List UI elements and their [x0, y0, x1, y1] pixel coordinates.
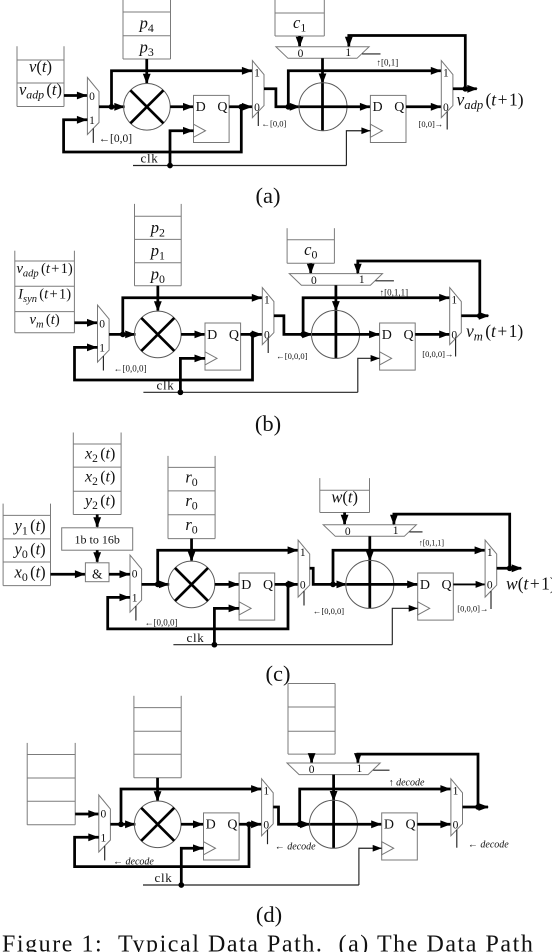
svg-text:←[0,0]: ←[0,0] — [99, 133, 133, 145]
svg-text:x0(t): x0(t) — [14, 562, 46, 584]
wire mux M2 output to adder (c) — [310, 568, 347, 588]
wire multiplier to FF1 (c) — [215, 581, 239, 589]
svg-text:1: 1 — [443, 67, 449, 79]
wire mux M1 output (c) — [142, 581, 170, 589]
wire coeff to multiplier (c) — [188, 539, 196, 562]
svg-text:Q: Q — [442, 578, 452, 593]
mux M2b — [262, 288, 274, 353]
svg-text:1: 1 — [89, 115, 95, 127]
junction J2 (a) — [285, 104, 291, 110]
svg-text:Q: Q — [263, 578, 273, 593]
svg-text:(c): (c) — [266, 661, 291, 686]
svg-text:clk: clk — [155, 870, 173, 885]
wire output (d) — [463, 803, 490, 811]
svg-text:Q: Q — [227, 818, 237, 833]
svg-text:clk: clk — [187, 630, 205, 645]
svg-text:[0,0]→: [0,0]→ — [419, 119, 444, 129]
adder (c) — [346, 560, 394, 608]
D flip-flop FF2a — [370, 95, 406, 142]
select label M3a — [419, 119, 444, 129]
svg-text:0: 0 — [300, 579, 306, 591]
select label M1d — [113, 857, 154, 868]
svg-text:&: & — [92, 566, 103, 581]
wire clk to FF2 (a) — [346, 127, 370, 165]
wire input to mux0 (c) — [51, 570, 86, 578]
D flip-flop FF2c — [418, 573, 454, 620]
wire mux M1 output (b) — [109, 331, 136, 339]
svg-text:1: 1 — [453, 786, 459, 798]
wire FF1 Q to mux M2 input0 (a) — [229, 103, 252, 111]
svg-text:x2(t): x2(t) — [84, 446, 115, 466]
junction J2 (c) — [330, 582, 336, 588]
svg-text:1: 1 — [254, 67, 260, 79]
svg-text:←[0,0]: ←[0,0] — [262, 118, 287, 128]
wire FF2 Q to mux M3 input0 (d) — [417, 820, 451, 828]
svg-text:1: 1 — [99, 342, 105, 354]
register stack coeff (b) — [135, 204, 182, 286]
D flip-flop FF1c — [239, 573, 275, 620]
svg-text:0: 0 — [254, 102, 260, 114]
mux M3d (output) — [451, 779, 463, 848]
D flip-flop FF1b — [205, 323, 241, 370]
register stack inputs (c) — [3, 504, 50, 586]
register stack inputs (b) — [15, 251, 75, 333]
caption (c) — [266, 661, 291, 686]
svg-text:0: 0 — [99, 319, 105, 331]
wire multiplier to FF1 (b) — [181, 331, 205, 339]
wire clk line (b) — [143, 391, 357, 393]
caption (b) — [255, 411, 281, 436]
svg-text:w(t): w(t) — [331, 488, 358, 507]
svg-text:0: 0 — [453, 819, 459, 831]
junction clk (b) — [178, 389, 184, 395]
junction output (c) — [507, 565, 513, 571]
mux M2c — [298, 540, 310, 605]
register stack coeff (c) — [168, 456, 215, 539]
svg-text:←[0,0,0]: ←[0,0,0] — [276, 351, 307, 361]
wire clk to FF1 (c) — [214, 604, 239, 644]
wire adder to FF2 (b) — [313, 331, 380, 339]
node clk (b) — [157, 378, 175, 393]
svg-text:clk: clk — [141, 151, 159, 166]
wire feedback FF1 Q to mux M1 input1 (b) — [75, 334, 253, 380]
D flip-flop FF1a — [194, 95, 230, 142]
svg-text:0: 0 — [487, 579, 493, 591]
svg-text:1: 1 — [487, 547, 493, 559]
wire J1 riser to mux M2 input1 (c) — [158, 546, 298, 584]
svg-text:[0,0,0]→: [0,0,0]→ — [457, 603, 488, 613]
wire J2 riser to mux M3 input1 (b) — [303, 294, 450, 335]
svg-text:D: D — [241, 578, 251, 593]
mux M1d — [99, 795, 111, 860]
wire input to mux0 (d) — [75, 810, 99, 818]
svg-text:0: 0 — [443, 102, 449, 114]
register stack const (d) — [288, 684, 335, 755]
junction output (d) — [475, 804, 481, 810]
select label M2a — [262, 118, 287, 128]
junction JQ (a) — [238, 104, 244, 110]
wire FF1 Q to mux M2 input0 (d) — [239, 820, 262, 828]
svg-text:1: 1 — [300, 547, 306, 559]
wire output (b) — [461, 312, 489, 320]
svg-text:0: 0 — [89, 91, 95, 103]
wire FF1 Q to mux M2 input0 (c) — [275, 581, 298, 589]
register stack const (c) — [320, 478, 370, 512]
junction JQ (c) — [285, 582, 291, 588]
junction J2 (b) — [300, 332, 306, 338]
svg-text:(d): (d) — [256, 902, 282, 927]
svg-text:y0(t): y0(t) — [13, 539, 46, 561]
adder (a) — [299, 83, 347, 131]
svg-text:0: 0 — [345, 526, 351, 538]
mux M4a (decode) — [276, 47, 381, 60]
register stack const (b) — [287, 228, 334, 263]
junction clk (d) — [178, 882, 184, 888]
wire feedback FF1 Q to mux M1 input1 (d) — [75, 824, 249, 866]
adder (d) — [309, 800, 357, 848]
svg-text:Q: Q — [394, 100, 404, 115]
register stack coeff (a) — [123, 0, 171, 59]
wire decode mux output to adder (d) — [330, 775, 338, 849]
wire adder to FF2 (d) — [310, 820, 381, 828]
wire input to mux0 (a) — [64, 92, 87, 100]
svg-text:0: 0 — [263, 819, 269, 831]
wire clk to FF2 (c) — [392, 605, 417, 645]
junction clk (a) — [167, 163, 173, 169]
wire output (a) — [453, 85, 478, 93]
svg-text:0: 0 — [311, 275, 317, 287]
register stack const (a) — [275, 0, 324, 36]
svg-text:↑[0,1,1]: ↑[0,1,1] — [380, 288, 409, 298]
wire coeff to multiplier (d) — [154, 778, 162, 802]
svg-text:x2(t): x2(t) — [84, 469, 115, 489]
svg-text:D: D — [373, 100, 383, 115]
wire clk to FF1 (d) — [181, 844, 203, 885]
svg-text:0: 0 — [451, 329, 457, 341]
svg-text:1: 1 — [101, 832, 107, 844]
junction J2 (d) — [297, 821, 303, 827]
svg-text:D: D — [420, 578, 430, 593]
svg-text:0: 0 — [264, 329, 270, 341]
svg-text:←[0,0,0]: ←[0,0,0] — [114, 363, 147, 373]
select label M4b — [380, 288, 409, 298]
svg-text:← decode: ← decode — [275, 841, 316, 852]
wire mux M1 output (a) — [99, 103, 125, 111]
wire output feedback to decode mux (a) — [345, 36, 465, 89]
wire J1 riser to mux M2 input1 (d) — [121, 785, 262, 824]
junction JQ (d) — [246, 821, 252, 827]
wire and gate to mux M1c (c) — [109, 570, 130, 578]
wire FF2 Q to mux M3 input0 (b) — [415, 331, 450, 339]
svg-text:v(t): v(t) — [29, 57, 52, 76]
wire const to decode mux (b) — [307, 263, 315, 274]
mux M4d (decode) — [287, 763, 390, 776]
figure caption — [2, 932, 534, 952]
wire mux M1 output (d) — [110, 820, 135, 828]
junction output (a) — [462, 86, 468, 92]
wire adder to FF2 (c) — [347, 581, 418, 589]
svg-text:↑[0,1,1]: ↑[0,1,1] — [419, 538, 445, 547]
wire adder to FF2 (a) — [300, 103, 370, 111]
node output label (c) — [506, 574, 552, 594]
wire feedback FF1 Q to mux M1 input1 (a) — [64, 107, 242, 152]
mux M3c (output) — [485, 540, 497, 609]
svg-text:D: D — [384, 818, 394, 833]
register stack inputs (d) — [27, 743, 75, 825]
wire clk to FF2 (d) — [359, 845, 382, 885]
svg-text:D: D — [206, 818, 216, 833]
register stack bits x2/y2 (c) — [73, 433, 121, 515]
svg-text:clk: clk — [157, 378, 175, 393]
wire J2 riser to mux M3 input1 (c) — [333, 546, 485, 584]
wire mux M2 output to adder (d) — [273, 807, 310, 828]
select label M1c — [145, 617, 178, 627]
svg-text:0: 0 — [309, 764, 315, 776]
select label M2c — [313, 606, 344, 616]
D flip-flop FF2d — [382, 813, 418, 860]
register stack coeff (d) — [134, 696, 181, 778]
svg-text:1: 1 — [345, 47, 351, 59]
svg-text:(a): (a) — [256, 183, 281, 208]
select label M1b — [114, 363, 147, 373]
svg-text:Q: Q — [403, 328, 413, 343]
wire const to decode mux (d) — [308, 753, 316, 764]
adder (b) — [312, 310, 360, 358]
svg-text:Q: Q — [406, 818, 416, 833]
wire clk line (c) — [173, 644, 392, 646]
svg-text:Q: Q — [217, 100, 227, 115]
mux M1b — [98, 305, 110, 370]
svg-text:1: 1 — [357, 763, 363, 775]
wire FF2 Q to mux M3 input0 (c) — [453, 581, 485, 588]
wire const to decode mux (a) — [296, 36, 304, 47]
mux M4b (decode) — [289, 274, 394, 287]
svg-text:[0,0,0]→: [0,0,0]→ — [422, 349, 453, 359]
select label M3c — [457, 603, 488, 613]
select label M4d — [389, 778, 425, 789]
mux M3b (output) — [450, 288, 462, 357]
wire clk to FF2 (b) — [358, 355, 380, 392]
svg-text:D: D — [382, 328, 392, 343]
wire decode mux output to adder (b) — [332, 285, 340, 358]
wire J2 riser to mux M3 input1 (d) — [300, 785, 451, 824]
select label M4c — [419, 538, 445, 547]
D flip-flop FF2b — [380, 323, 416, 370]
svg-text:D: D — [196, 100, 206, 115]
junction J1 (a) — [109, 104, 115, 110]
wire J1 riser to mux M2 input1 (b) — [123, 294, 262, 335]
svg-text:1: 1 — [359, 274, 365, 286]
node output label (b) — [466, 321, 523, 344]
svg-text:1b to 16b: 1b to 16b — [75, 533, 120, 547]
node output label (a) — [457, 90, 524, 113]
multiplier (d) — [134, 801, 181, 848]
svg-text:1: 1 — [263, 786, 269, 798]
wire mux M2 output to adder (b) — [274, 316, 313, 339]
junction clk (c) — [212, 642, 218, 648]
wire feedback FF1 Q to mux M1 input1 (c) — [108, 584, 288, 629]
select label M3b — [422, 349, 453, 359]
wire clk line (d) — [143, 884, 359, 886]
node clk (d) — [155, 870, 173, 885]
svg-text:y1(t): y1(t) — [13, 516, 46, 538]
wire decode mux output to adder (a) — [319, 58, 327, 131]
select label M2b — [276, 351, 307, 361]
svg-text:0: 0 — [101, 808, 107, 820]
wire output (c) — [497, 564, 523, 572]
wire J1 riser to mux M2 input1 (a) — [112, 67, 253, 107]
svg-text:Q: Q — [229, 328, 239, 343]
svg-text:0: 0 — [132, 569, 138, 581]
multiplier (c) — [168, 561, 215, 608]
select label M4a — [377, 58, 399, 68]
register stack inputs (a) — [17, 46, 64, 106]
multiplier (b) — [135, 311, 182, 358]
svg-text:w(t + 1): w(t + 1) — [506, 574, 552, 594]
mux M1a — [87, 78, 99, 143]
select label M1a — [99, 133, 133, 145]
svg-text:←[0,0,0]: ←[0,0,0] — [145, 617, 178, 627]
svg-text:← decode: ← decode — [468, 839, 509, 850]
svg-text:0: 0 — [298, 48, 304, 60]
svg-text:↑[0,1]: ↑[0,1] — [377, 58, 399, 68]
wire clk to FF1 (a) — [170, 127, 194, 166]
converter 1b to 16b (c) — [62, 528, 133, 550]
mux M2d — [262, 779, 274, 844]
wire clk to FF1 (b) — [180, 354, 205, 392]
node clk (c) — [187, 630, 205, 645]
wire output feedback to decode mux (b) — [354, 261, 480, 316]
multiplier (a) — [124, 84, 171, 131]
svg-text:1: 1 — [264, 294, 270, 306]
wire multiplier to FF1 (a) — [170, 103, 193, 111]
junction JQ (b) — [250, 332, 256, 338]
wire clk line (a) — [133, 165, 346, 167]
svg-text:1: 1 — [132, 592, 138, 604]
node clk (a) — [141, 151, 159, 166]
caption (a) — [256, 183, 281, 208]
wire coeff to multiplier (a) — [143, 59, 151, 84]
junction J1 (d) — [118, 821, 124, 827]
svg-text:↑ decode: ↑ decode — [389, 778, 425, 789]
wire decode mux output to adder (c) — [366, 536, 374, 608]
wire FF2 Q to mux M3 input0 (a) — [406, 103, 441, 111]
junction J1 (b) — [120, 332, 126, 338]
svg-text:(b): (b) — [255, 411, 281, 436]
caption (d) — [256, 902, 282, 927]
wire FF1 Q to mux M2 input0 (b) — [241, 331, 263, 339]
svg-text:1: 1 — [393, 525, 399, 537]
wire const to decode mux (c) — [341, 513, 349, 526]
mux M4c (decode) — [323, 525, 422, 538]
mux M3a (output) — [441, 61, 453, 130]
D flip-flop FF1d — [204, 813, 240, 860]
wire coeff to multiplier (b) — [154, 286, 162, 312]
mux M1c — [130, 555, 142, 620]
wire stack to converter (c) — [93, 515, 101, 528]
junction output (b) — [477, 313, 483, 319]
junction J1 (c) — [155, 582, 161, 588]
svg-text:←[0,0,0]: ←[0,0,0] — [313, 606, 344, 616]
wire input to mux0 (b) — [74, 319, 97, 327]
svg-text:Figure 1: Typical Data Path.: Figure 1: Typical Data Path. (a) The Dat… — [2, 932, 534, 952]
mux M2a — [252, 61, 264, 126]
select label M2d — [275, 841, 316, 852]
select label M3d — [468, 839, 509, 850]
wire output feedback to decode mux (d) — [354, 753, 478, 807]
wire converter to and gate (c) — [93, 550, 101, 563]
svg-text:1: 1 — [451, 294, 457, 306]
wire mux M2 output to adder (a) — [264, 89, 300, 111]
svg-text:D: D — [207, 328, 217, 343]
wire J2 riser to mux M3 input1 (a) — [288, 67, 441, 107]
wire multiplier to FF1 (d) — [181, 820, 204, 828]
wire output feedback to decode mux (c) — [390, 514, 510, 568]
and gate & (c) — [85, 563, 109, 582]
